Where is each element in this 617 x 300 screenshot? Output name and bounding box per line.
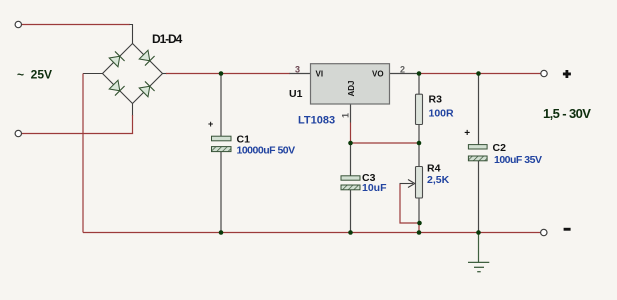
terminal T3 (output +) bbox=[541, 70, 547, 76]
terminal T1 (AC in top) bbox=[15, 21, 21, 27]
wire bottom rail bbox=[83, 232, 541, 234]
diode D4 bottom-right bbox=[139, 81, 155, 97]
bridge rectifier D1-D4 diamond bbox=[103, 44, 163, 104]
wire ADJ horizontal bbox=[351, 142, 420, 144]
wire R4 wiper feedback bbox=[400, 184, 419, 223]
diode D2 top-right bbox=[139, 50, 155, 66]
svg-text:1,5 - 30V: 1,5 - 30V bbox=[543, 106, 591, 121]
svg-text:R4: R4 bbox=[427, 163, 441, 175]
svg-text:R3: R3 bbox=[429, 94, 443, 106]
svg-text:ADJ: ADJ bbox=[347, 80, 356, 96]
wire VO rail to output bbox=[390, 73, 420, 75]
node R4 bottom bbox=[417, 230, 422, 235]
svg-text:LT1083: LT1083 bbox=[298, 115, 335, 127]
svg-text:2,5K: 2,5K bbox=[427, 174, 450, 186]
node C2 bottom bbox=[476, 230, 481, 235]
wire bottom AC from T2 to bridge bbox=[22, 133, 134, 135]
node R3 top bbox=[417, 71, 422, 76]
capacitor C2 bbox=[464, 74, 487, 233]
node C1 bottom bbox=[219, 230, 224, 235]
capacitor C3 bbox=[341, 143, 360, 233]
svg-text:2: 2 bbox=[400, 65, 405, 75]
wire DC- vertical bbox=[82, 74, 84, 233]
wire ADJ down bbox=[350, 104, 352, 123]
wire bridge right stub bbox=[163, 73, 168, 75]
terminal T2 (AC in bottom) bbox=[15, 130, 21, 136]
wire top AC from T1 to bridge bbox=[22, 24, 131, 26]
svg-text:U1: U1 bbox=[289, 88, 303, 100]
wire bridge bottom pin stub bbox=[132, 104, 134, 117]
svg-text:C2: C2 bbox=[493, 142, 507, 154]
node junction dots bbox=[219, 71, 481, 235]
node ADJ/C3 bbox=[348, 141, 353, 146]
svg-text:~ 25V: ~ 25V bbox=[17, 68, 52, 82]
svg-text:3: 3 bbox=[295, 65, 300, 75]
diode D3 bottom-left bbox=[109, 80, 125, 96]
svg-text:10000uF 50V: 10000uF 50V bbox=[237, 145, 296, 157]
svg-text:VI: VI bbox=[316, 70, 324, 79]
wire bridge left stub bbox=[83, 73, 103, 75]
op-amp U1 regulator LT1083 body bbox=[311, 64, 390, 104]
terminal T4 (output -) bbox=[541, 229, 547, 235]
node R4 wiper bbox=[417, 221, 422, 226]
svg-text:1: 1 bbox=[341, 113, 351, 118]
node C2 top bbox=[476, 71, 481, 76]
wire bridge top pin stub bbox=[130, 25, 133, 44]
resistor R3 bbox=[416, 74, 423, 143]
svg-text:100uF 35V: 100uF 35V bbox=[494, 154, 542, 166]
label + output bbox=[563, 70, 571, 78]
diode D1 top-left bbox=[109, 51, 125, 67]
node C1 top bbox=[219, 71, 224, 76]
svg-text:+: + bbox=[208, 119, 213, 129]
node C3 bottom bbox=[348, 230, 353, 235]
svg-text:VO: VO bbox=[372, 70, 384, 79]
svg-text:10uF: 10uF bbox=[362, 182, 387, 194]
potentiometer R4 bbox=[400, 143, 423, 233]
label - output bbox=[564, 228, 571, 231]
svg-text:+: + bbox=[464, 128, 470, 139]
svg-text:100R: 100R bbox=[429, 108, 455, 120]
capacitor C1 bbox=[208, 74, 231, 233]
svg-text:D1-D4: D1-D4 bbox=[152, 32, 183, 46]
wire DC+ to regulator VI bbox=[166, 73, 290, 75]
ground bbox=[468, 233, 489, 272]
node R3/R4 bbox=[417, 141, 422, 146]
